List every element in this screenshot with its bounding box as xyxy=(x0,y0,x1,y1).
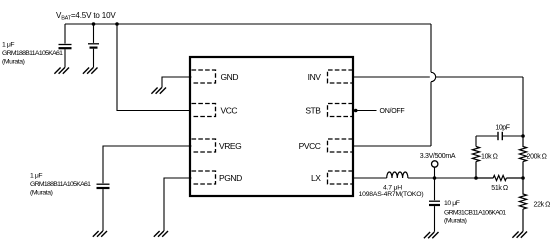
ground under R4 xyxy=(512,232,527,238)
ground under C4 xyxy=(424,232,439,238)
svg-text:22kΩ: 22kΩ xyxy=(534,202,550,209)
ground under C1 xyxy=(54,68,69,74)
svg-text:1098AS-4R7M(TOKO): 1098AS-4R7M(TOKO) xyxy=(359,191,424,198)
pin box STB xyxy=(328,104,354,117)
svg-text:1 μF: 1 μF xyxy=(2,42,14,49)
value label L1 4.7uH TOKO xyxy=(359,185,424,199)
svg-text:1 μF: 1 μF xyxy=(30,173,42,180)
svg-text:(Murata): (Murata) xyxy=(30,189,53,196)
node STB junction dot xyxy=(354,109,358,113)
wire STB xyxy=(354,110,377,112)
wire VREG to C3 xyxy=(103,146,192,183)
capacitor C3 xyxy=(97,184,110,231)
node R3 right junction xyxy=(521,176,525,180)
svg-text:ON/OFF: ON/OFF xyxy=(380,108,405,115)
svg-text:GND: GND xyxy=(221,72,239,82)
capacitor C4 10uF xyxy=(429,178,440,232)
svg-text:VREG: VREG xyxy=(219,141,241,151)
wire feedback top row with capacitor C5 gap xyxy=(476,136,523,147)
svg-text:(Murata): (Murata) xyxy=(444,218,467,225)
ground under C2 xyxy=(83,68,98,74)
svg-text:10pF: 10pF xyxy=(495,125,509,132)
svg-text:GRM188B11A105KA61: GRM188B11A105KA61 xyxy=(2,50,63,57)
output terminal circle xyxy=(434,167,436,178)
resistor R3 51k horizontal xyxy=(476,175,523,180)
svg-text:PVCC: PVCC xyxy=(299,141,321,151)
value label C1 1uF GRM188B11A105KA61 Murata xyxy=(2,42,63,66)
wire inductor to output node xyxy=(408,177,476,179)
node output junction xyxy=(433,176,437,180)
svg-text:200kΩ: 200kΩ xyxy=(527,154,547,161)
node junction on rail at VCC feed xyxy=(115,22,119,26)
svg-text:10kΩ: 10kΩ xyxy=(481,154,498,161)
ground at PGND xyxy=(154,231,168,237)
ground under C3 xyxy=(93,231,107,237)
svg-text:GRM188B11A105KA61: GRM188B11A105KA61 xyxy=(30,181,91,188)
wire LX to inductor xyxy=(354,177,387,179)
wire INV to feedback node xyxy=(354,77,523,135)
svg-text:3.3V/500mA: 3.3V/500mA xyxy=(420,153,456,160)
svg-text:INV: INV xyxy=(308,72,322,82)
resistor R1 10k xyxy=(472,147,479,179)
wire GND pin to ground xyxy=(162,77,192,88)
svg-text:10 μF: 10 μF xyxy=(444,200,460,207)
pin box INV xyxy=(328,70,354,83)
ground at GND pin xyxy=(151,88,166,94)
resistor R2 200k xyxy=(519,136,526,178)
inductor L1 xyxy=(387,172,408,178)
wire VBAT to PVCC with hop over INV xyxy=(354,24,436,146)
svg-text:51kΩ: 51kΩ xyxy=(491,185,508,192)
node feedback junction dot xyxy=(521,134,525,138)
pin box PVCC xyxy=(328,139,354,152)
svg-text:GRM31CB11A106KA01: GRM31CB11A106KA01 xyxy=(444,210,506,217)
pin box GND xyxy=(192,70,216,83)
svg-text:PGND: PGND xyxy=(219,173,242,183)
pin box LX xyxy=(328,171,354,184)
IC U1 body xyxy=(190,57,353,196)
wire VCC feed xyxy=(117,24,192,111)
capacitor C1 xyxy=(59,24,72,68)
capacitor C5 10pF xyxy=(498,132,502,140)
wire PGND to ground xyxy=(164,178,192,231)
resistor R4 22k xyxy=(519,178,526,232)
capacitor C2 xyxy=(88,24,99,68)
pin box VCC xyxy=(192,104,216,117)
value label C4 10uF GRM31CB11A106KA01 Murata xyxy=(444,200,506,225)
wire VBAT rail xyxy=(65,23,431,25)
svg-text:VCC: VCC xyxy=(221,105,238,115)
pin box VREG xyxy=(192,139,216,152)
node junction on rail at C2 xyxy=(92,22,96,26)
svg-text:STB: STB xyxy=(305,105,321,115)
node R1 bottom junction xyxy=(474,176,478,180)
svg-text:LX: LX xyxy=(311,173,321,183)
value label C3 1uF GRM188B11A105KA61 Murata xyxy=(30,173,91,197)
pin box PGND xyxy=(192,171,216,184)
svg-text:(Murata): (Murata) xyxy=(2,58,25,65)
